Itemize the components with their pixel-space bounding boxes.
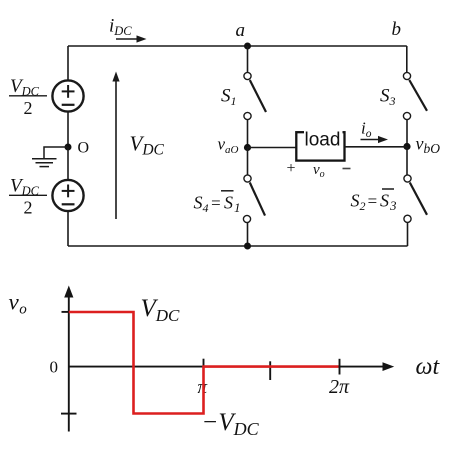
voltage source V1 (VDC/2 top) xyxy=(52,80,83,111)
wire top bus from left leg to node b xyxy=(68,45,407,47)
waveform trace vo square wave xyxy=(69,312,339,414)
svg-text:load: load xyxy=(305,130,341,151)
wire leg a: S1 to node vaO xyxy=(247,120,249,148)
arrow io xyxy=(361,139,381,141)
svg-text:0: 0 xyxy=(50,358,59,377)
load box xyxy=(296,132,344,160)
tick 2pi xyxy=(339,359,341,375)
wire load right (load box to vbO) xyxy=(345,146,408,148)
svg-text:b: b xyxy=(392,19,402,40)
wire left leg lower (V2 to bottom bus) xyxy=(67,211,69,246)
switch S2 xyxy=(404,175,411,182)
tick -VDC level xyxy=(61,413,77,415)
svg-text:ωt: ωt xyxy=(416,354,441,380)
svg-text:+: + xyxy=(287,160,296,177)
svg-text:2π: 2π xyxy=(329,376,350,398)
voltage source V2 (VDC/2 bottom) xyxy=(52,180,83,211)
wire left leg between V1 and node O xyxy=(67,112,69,147)
wire leg a: S4 to bottom bus xyxy=(247,223,249,246)
wire leg a: node a to switch S1 xyxy=(247,46,249,72)
node vbO junction dot xyxy=(403,143,410,150)
wire leg b: S2 to bottom bus xyxy=(407,222,409,246)
svg-text:O: O xyxy=(78,140,90,157)
arrow iDC xyxy=(116,38,139,40)
wire leg b: top bus corner to switch S3 xyxy=(406,46,408,72)
wire load left (vaO to load box) xyxy=(248,147,297,149)
tick pi xyxy=(203,359,205,378)
switch S3 xyxy=(403,72,410,79)
tick pi/2 xyxy=(133,362,135,375)
x-axis xyxy=(69,366,385,368)
tick 3pi/2 xyxy=(269,361,271,380)
wire left leg between node O and source V2 xyxy=(67,147,69,180)
wire ground stub xyxy=(44,147,68,159)
switch S1 xyxy=(244,72,251,79)
wire bottom bus xyxy=(68,245,408,247)
ground symbol xyxy=(32,158,57,160)
svg-text:2: 2 xyxy=(24,98,33,118)
arrow VDC bus voltage xyxy=(115,79,117,219)
wire left leg upper (top bus to source V1) xyxy=(67,46,69,81)
label - (load polarity) xyxy=(343,168,351,170)
wire leg a: node vaO to switch S4 xyxy=(247,148,249,175)
wire leg b: node vbO to switch S2 xyxy=(406,147,408,175)
load label white patch xyxy=(304,127,343,146)
node O junction dot xyxy=(65,144,72,151)
tick +VDC level xyxy=(62,311,70,313)
node vaO junction dot xyxy=(244,144,251,151)
svg-text:a: a xyxy=(236,20,246,41)
switch S4 xyxy=(244,175,251,182)
y-axis xyxy=(68,294,70,432)
svg-text:2: 2 xyxy=(24,198,33,218)
junction dot leg a / bottom bus xyxy=(244,243,251,250)
node a junction dot xyxy=(244,43,251,50)
wire leg b: S3 to node vbO xyxy=(406,120,408,147)
